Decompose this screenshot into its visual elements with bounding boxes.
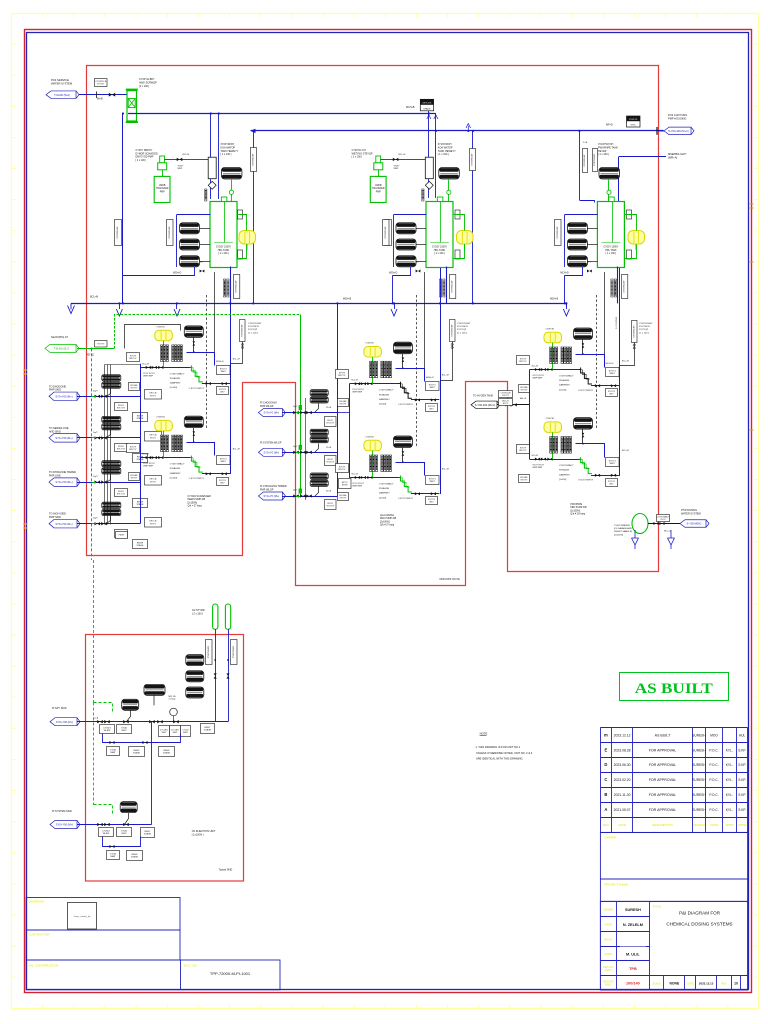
svg-text:S-Y00-100 (M+C): S-Y00-100 (M+C)	[475, 403, 496, 407]
supply valves row 1	[95, 395, 101, 398]
svg-text:DRAWN: DRAWN	[603, 907, 613, 911]
logo box	[68, 903, 97, 930]
svg-text:PI CHOGGINGPMP WLGP: PI CHOGGINGPMP WLGP	[260, 402, 277, 408]
pulsation capsule 3A	[544, 332, 562, 343]
svg-text:CHEMICAL DOSING SYSTEMS: CHEMICAL DOSING SYSTEMS	[666, 922, 732, 927]
svg-text:MCH+D: MCH+D	[426, 377, 434, 379]
pulsation capsule C	[628, 231, 645, 245]
skid-2 suction manifold	[337, 303, 339, 496]
sample cooler green pump	[632, 514, 648, 534]
right border revision marks	[750, 204, 754, 430]
pump discharge line B	[381, 159, 426, 161]
svg-text:CY03Y1B: CY03Y1B	[365, 437, 374, 439]
svg-text:SCALE: SCALE	[653, 983, 661, 986]
svg-text:BCL+M: BCL+M	[90, 296, 98, 299]
skid feed risers	[230, 267, 232, 475]
svg-text:REG NODWG: REG NODWG	[603, 965, 613, 972]
svg-text:m: m	[604, 732, 608, 737]
svg-text:SY0+Y0 (M+): SY0+Y0 (M+)	[264, 411, 280, 415]
drum tag column B	[383, 220, 390, 246]
svg-text:CY03Y1WACYPLEASDNDAMPENY[1x100: CY03Y1WACYPLEASDNDAMPENY[1x100]	[170, 372, 185, 389]
tank outlet riser C	[617, 267, 619, 304]
svg-text:AS BUILT: AS BUILT	[655, 733, 672, 737]
svg-text:REV'D: REV'D	[604, 937, 612, 941]
svg-text:FOR APPROVAL: FOR APPROVAL	[649, 748, 677, 752]
svg-text:MSEPBIA SLPY(WR+A): MSEPBIA SLPY(WR+A)	[668, 152, 687, 160]
svg-text:MPL ML27 barg: MPL ML27 barg	[169, 696, 177, 701]
tank drain C	[565, 267, 583, 276]
inlet pipe to strainer	[79, 94, 127, 96]
svg-text:CY03Y1LBY: CY03Y1LBY	[236, 280, 238, 293]
feed risers C	[579, 131, 581, 200]
discharge drum 1A	[184, 326, 203, 338]
tank green side line B	[453, 215, 465, 231]
skid-2 PSV column	[450, 320, 456, 342]
metering pump row 1	[102, 375, 121, 381]
svg-text:DEY+EX: DEY+EX	[423, 103, 432, 105]
svg-text:BYGSESYOYT: BYGSESYOYT	[339, 495, 347, 500]
chemical tank T-B	[426, 202, 453, 268]
O2 drums stack	[186, 655, 204, 666]
tank heater E-A	[221, 168, 242, 180]
svg-text:CY03Y1WACYPLEASDNDAMPENY[1x100: CY03Y1WACYPLEASDNDAMPENY[1x100]	[559, 375, 574, 392]
svg-text:PbWY: PbWY	[119, 535, 125, 537]
skid-2 bottom right box	[339, 479, 352, 489]
svg-text:CY03Y1LBY: CY03Y1LBY	[557, 226, 559, 239]
calibration column 2A	[401, 382, 412, 399]
dosing line 1B	[140, 457, 192, 459]
skid-2 green valve 1	[296, 412, 300, 414]
svg-text:2a+B: 2a+B	[94, 718, 99, 720]
svg-text:PROJECT NAME: PROJECT NAME	[604, 883, 627, 887]
discharge tag boxes 1A	[217, 366, 231, 375]
svg-text:C: C	[604, 777, 607, 782]
svg-text:KAL CONSTRUCTOR: KAL CONSTRUCTOR	[29, 964, 60, 968]
svg-text:SY03YWMP: SY03YWMP	[178, 166, 185, 170]
svg-text:CY03Y1B: CY03Y1B	[156, 326, 165, 328]
inline column B	[425, 157, 433, 179]
metering pump row 3	[102, 461, 121, 467]
O2 line1 tag boxes	[100, 725, 115, 734]
svg-text:BIGSESTAGE: BIGSESTAGE	[137, 542, 145, 547]
svg-text:PO4 CHOYONGPMP HOUSING: PO4 CHOYONGPMP HOUSING	[668, 113, 687, 121]
tank connection line 3A	[604, 272, 606, 354]
svg-text:SYOYT: SYOYT	[97, 343, 105, 345]
discharge tag boxes 3A	[606, 368, 620, 377]
svg-text:SYOY SYOYIWMP WMP: SYOY SYOYIWMP WMP	[143, 463, 155, 467]
svg-text:FOR APPROVAL: FOR APPROVAL	[649, 778, 677, 782]
stair exit line 3A	[591, 385, 619, 387]
svg-text:Dy/Y: Dy/Y	[93, 476, 98, 478]
green inline strainer F-01	[127, 91, 137, 121]
AS BUILT stamp	[620, 673, 729, 701]
svg-text:S-Y00-M00C: S-Y00-M00C	[687, 522, 702, 526]
green drop to skid-2	[300, 315, 302, 497]
interface tag box	[116, 532, 128, 539]
calibration column 3A	[581, 368, 592, 385]
svg-text:CY03Y1LBY: CY03Y1LBY	[253, 153, 255, 166]
local contractor box	[26, 960, 280, 990]
main water header 1	[128, 113, 436, 115]
pulsation capsule 2B	[364, 440, 382, 451]
green supply line	[77, 348, 114, 350]
stair exit line 2A	[411, 399, 439, 401]
transfer pump P-B	[376, 156, 381, 163]
svg-text:P.O.C.: P.O.C.	[709, 793, 718, 797]
svg-text:100/140: 100/140	[626, 982, 640, 986]
svg-text:CY03Y1LBY: CY03Y1LBY	[452, 280, 454, 293]
svg-text:MI+B: MI+B	[97, 98, 103, 101]
stair exit line 3B	[591, 475, 619, 477]
svg-text:BbL+R: BbL+R	[520, 398, 527, 400]
svg-text:SURESH: SURESH	[692, 748, 706, 752]
svg-text:AS BUILT: AS BUILT	[635, 681, 713, 697]
tank drain A	[123, 267, 195, 276]
svg-text:Dy/Y: Dy/Y	[293, 446, 298, 448]
united-by box	[26, 898, 180, 931]
O2 line2 tag boxes	[99, 828, 114, 837]
metering pump row 4	[102, 502, 121, 508]
svg-text:TITLE:: TITLE:	[653, 905, 662, 909]
pulsation capsule 2A	[364, 347, 382, 358]
O2 cylinders	[213, 604, 218, 629]
svg-text:O2 INJECTION UNIT[ 1x100% ]: O2 INJECTION UNIT[ 1x100% ]	[192, 830, 216, 836]
svg-text:MCH+B: MCH+B	[406, 106, 415, 109]
svg-text:3Y03YWOHKOA WATOPTANK HEWEYY[: 3Y03YWOHKOA WATOPTANK HEWEYY[ 1 x 100 ]	[438, 143, 456, 156]
svg-text:TO HIGH SIDEPMP SKID: TO HIGH SIDEPMP SKID	[49, 513, 66, 519]
agitator dashed shafts	[206, 295, 208, 428]
calibration column 3B	[581, 457, 592, 474]
left tag boxes 3B	[517, 445, 530, 454]
O2 line1 pump	[122, 699, 139, 710]
svg-text:2021.05.07: 2021.05.07	[614, 808, 631, 812]
svg-text:BCL+M: BCL+M	[399, 154, 406, 156]
svg-text:CONTRACTOR: CONTRACTOR	[29, 933, 51, 937]
row tag boxes 4	[115, 530, 128, 538]
svg-text:BCL+M: BCL+M	[622, 361, 629, 363]
skid-1 vent line	[125, 325, 181, 349]
left tag boxes 3A	[517, 356, 530, 365]
svg-text:2D+B: 2D+B	[326, 491, 332, 493]
svg-text:S.KP.: S.KP.	[738, 793, 746, 797]
row tag boxes 1	[115, 403, 128, 411]
dosing line 3A	[530, 369, 582, 371]
calibration column 2B	[401, 476, 412, 493]
pulsation capsule 1A	[155, 330, 173, 341]
svg-text:OWNER :: OWNER :	[604, 836, 617, 840]
svg-text:MOO: MOO	[710, 733, 718, 737]
dosing upper header 1A	[187, 353, 215, 366]
svg-text:BCL+M: BCL+M	[442, 375, 449, 377]
instrument tag columns 3A	[550, 347, 552, 364]
svg-text:SYOYIBPYOY: SYOYIBPYOY	[129, 355, 137, 360]
svg-text:SY0+Y00 (M+): SY0+Y00 (M+)	[55, 480, 72, 484]
revision table	[600, 727, 747, 729]
svg-text:SYOY SYOYIWMP WMP: SYOY SYOYIWMP WMP	[352, 483, 364, 487]
svg-text:CY03Y1LBY: CY03Y1LBY	[169, 226, 171, 239]
dosing upper header 1B	[187, 443, 215, 456]
svg-text:SCL+M: SCL+M	[532, 366, 539, 368]
svg-text:CY03Y1LB0YSYOYNOXSYOYQP[ 1 x 1: CY03Y1LB0YSYOYNOXSYOYQP[ 1 x 100 ]	[639, 323, 653, 334]
svg-text:SURESH: SURESH	[692, 793, 706, 797]
svg-text:SURESH: SURESH	[692, 733, 706, 737]
svg-text:O SCYOYWPOY: O SCYOYWPOY	[189, 388, 205, 390]
dosing drums A	[180, 223, 200, 234]
svg-text:PI CHOGGING TRWEDPMP WLGP: PI CHOGGING TRWEDPMP WLGP	[260, 485, 287, 491]
O2 tag columns	[206, 640, 213, 665]
left tag boxes 1B	[127, 444, 140, 453]
svg-text:FOR APPROVAL: FOR APPROVAL	[649, 793, 677, 797]
O2 line2 pump	[120, 802, 137, 813]
svg-text:CY03Y1LB0YAWG SCRWQP[1 x 100]: CY03Y1LB0YAWG SCRWQP[1 x 100]	[139, 78, 157, 88]
svg-text:SY03YWMP: SY03YWMP	[394, 166, 401, 170]
svg-text:NaOCl(5%) AT: NaOCl(5%) AT	[51, 335, 68, 339]
svg-text:SYOY SYOYIWMP WMP: SYOY SYOYIWMP WMP	[533, 465, 545, 469]
svg-text:Typical SKID: Typical SKID	[219, 869, 233, 872]
svg-text:CY03Y1LB0YSYOYNOXSYOYQP[ 1 x 1: CY03Y1LB0YSYOYNOXSYOYQP[ 1 x 100 ]	[248, 323, 262, 334]
header end arrow	[68, 303, 75, 313]
svg-text:UNITED BY: UNITED BY	[29, 900, 45, 904]
calibration column 1B	[191, 456, 202, 473]
svg-text:SY0+Y0 (M+): SY0+Y0 (M+)	[264, 494, 280, 498]
drum tag column C	[555, 220, 562, 246]
svg-text:SYOYIBPYOY: SYOYIBPYOY	[129, 446, 137, 451]
svg-text:DRAWN: DRAWN	[693, 823, 704, 827]
svg-text:CY03Y SMPOYDYMOR SCHWODDDBYOYO: CY03Y SMPOYDYMOR SCHWODDDBYOYOD PMP[ 2 x…	[136, 149, 158, 162]
svg-text:SCL+M: SCL+M	[532, 455, 539, 457]
svg-text:DATE: DATE	[618, 823, 626, 827]
green riser to header	[115, 315, 301, 349]
below tank instrument box C	[622, 275, 628, 299]
skid-2 green valve 2	[296, 452, 300, 454]
feed risers A	[210, 114, 212, 200]
svg-text:FOR APPROVAL: FOR APPROVAL	[649, 808, 677, 812]
svg-text:DOC. NO: DOC. NO	[184, 964, 198, 968]
chemical tank T-A	[210, 202, 237, 268]
tank drain B	[393, 267, 411, 276]
left tag boxes 2A	[336, 370, 349, 379]
svg-text:SYOY SYOYIWMP WMP: SYOY SYOYIWMP WMP	[143, 373, 155, 377]
svg-text:MP+D: MP+D	[606, 123, 613, 126]
instrument tag columns 3B	[550, 437, 552, 454]
tank outlet riser B	[446, 267, 448, 304]
svg-text:2023.02.20: 2023.02.20	[614, 778, 631, 782]
svg-text:CY03Y1LBY: CY03Y1LBY	[233, 645, 235, 658]
svg-text:KEY+BBYOY: KEY+BBYOY	[150, 435, 157, 440]
discharge tag boxes 2A	[426, 382, 440, 391]
svg-text:SCL+M: SCL+M	[351, 380, 358, 382]
below tank instrument box B	[450, 275, 456, 299]
svg-text:CY03Y1WACYPLEASDNDAMPENY[1x100: CY03Y1WACYPLEASDNDAMPENY[1x100]	[379, 389, 394, 406]
svg-text:KEY+BBYOY: KEY+BBYOY	[150, 521, 157, 526]
svg-text:SYOY SYOYIWMP WMP: SYOY SYOYIWMP WMP	[352, 389, 364, 393]
svg-text:Dy/Y: Dy/Y	[93, 390, 98, 392]
svg-text:AGA AANPALPED PUMP A/B[2x100%]: AGA AANPALPED PUMP A/B[2x100%]Q/h # 27 b…	[380, 514, 397, 527]
tank connection line 1A	[214, 272, 216, 352]
svg-text:BYGSESYOYT: BYGSESYOYT	[130, 475, 138, 480]
stair exit line 2B	[411, 493, 439, 495]
svg-text:2023.06.30: 2023.06.30	[614, 763, 631, 767]
svg-text:A: A	[604, 807, 607, 812]
tank heater E-B	[439, 168, 460, 180]
discharge tag boxes 3B	[606, 458, 620, 467]
svg-text:2023.12.12: 2023.12.12	[699, 982, 714, 986]
svg-text:B: B	[604, 792, 607, 797]
calibration column 1A	[191, 365, 202, 382]
svg-text:BYGSESYOYT: BYGSESYOYT	[130, 385, 138, 390]
skid-2 pump row 1	[310, 390, 328, 396]
discharge drum 3B	[574, 418, 593, 430]
svg-text:P.O.C.: P.O.C.	[709, 763, 718, 767]
title bottom strip	[650, 975, 748, 977]
svg-text:CY03Y1LBY: CY03Y1LBY	[624, 280, 626, 293]
svg-text:CY03Y1LBY: CY03Y1LBY	[594, 153, 596, 166]
drum tag column A	[167, 220, 174, 246]
svg-text:BNGSSTAGE: BNGSSTAGE	[163, 750, 171, 755]
svg-text:2D+B: 2D+B	[326, 447, 332, 449]
left feed drop line	[122, 114, 124, 304]
title block grid	[600, 901, 747, 990]
svg-text:PWOPNPEPED PUMP A/B[2x100%]Q/h: PWOPNPEPED PUMP A/B[2x100%]Q/h # 2/5 bar…	[570, 504, 587, 516]
svg-text:S.KP.: S.KP.	[738, 808, 746, 812]
stair exit line 1A	[202, 383, 230, 385]
green stub row 1	[92, 396, 96, 398]
svg-text:CY03Y1WATER(O2 SAVAGE ANDSWGET: CY03Y1WATER(O2 SAVAGE ANDSWGET SAMPLE)[1…	[614, 524, 632, 536]
svg-text:MCH+B: MCH+B	[343, 299, 352, 301]
svg-text:BNGSSTAGE: BNGSSTAGE	[131, 854, 139, 859]
svg-text:Gogo_somby_bg: Gogo_somby_bg	[74, 916, 91, 918]
drum pipe frame A	[177, 214, 211, 216]
svg-text:Dy/Y: Dy/Y	[93, 518, 98, 520]
svg-text:SYOYIBPYOY: SYOYIBPYOY	[338, 466, 346, 471]
tank green side line A	[237, 215, 247, 231]
svg-text:PO4 SERVICEWATER SYSTEM: PO4 SERVICEWATER SYSTEM	[51, 78, 73, 86]
svg-text:3Y03YWYOHPWOPNPE TANKHEYEP[ 1: 3Y03YWYOHPWOPNPE TANKHEYEP[ 1 x 100 ]	[598, 143, 618, 156]
svg-text:PI SYSTEM WLGP: PI SYSTEM WLGP	[260, 441, 282, 444]
supply valves row 3	[95, 480, 101, 483]
svg-text:TPP-72000-M-PI-1001: TPP-72000-M-PI-1001	[210, 971, 251, 976]
left tag boxes 1A	[127, 353, 140, 362]
svg-text:S.KP.: S.KP.	[738, 778, 746, 782]
svg-text:P.O.C.: P.O.C.	[709, 748, 718, 752]
svg-text:SY0+Y00 (M+): SY0+Y00 (M+)	[55, 522, 72, 526]
O2 dosing line 2	[77, 824, 152, 826]
svg-text:SCL+M: SCL+M	[142, 454, 149, 456]
green stubs O2 skid	[94, 703, 113, 713]
svg-text:HUL: HUL	[739, 733, 746, 737]
instrument tag columns 1B	[161, 435, 163, 452]
O2 line2 loop	[103, 837, 141, 847]
svg-text:KE'+Q: KE'+Q	[87, 355, 94, 357]
skid-2 green valve 3	[296, 496, 300, 498]
svg-text:SY0+Y0 (M+): SY0+Y0 (M+)	[264, 450, 280, 454]
svg-text:SURESH: SURESH	[692, 808, 706, 812]
svg-text:M. ULIL: M. ULIL	[626, 952, 640, 956]
discharge drum 3A	[574, 328, 593, 340]
skid-1 PSV column	[240, 320, 246, 342]
svg-text:FOR APPROVAL: FOR APPROVAL	[649, 763, 677, 767]
O2 aspirator drums	[144, 684, 165, 695]
svg-text:BNGSSTAGE: BNGSSTAGE	[133, 750, 141, 755]
svg-text:PI SPY SKID: PI SPY SKID	[52, 707, 67, 710]
tank green side line C	[625, 215, 637, 231]
svg-text:2023.12.12: 2023.12.12	[614, 733, 631, 737]
svg-text:SYOYIBPYOY: SYOYIBPYOY	[519, 447, 527, 452]
instrument tag columns 2A	[370, 361, 372, 378]
red boundary box of O2 injection skid	[86, 635, 244, 882]
header end tag box	[627, 116, 641, 127]
tank heater E-C	[599, 168, 620, 180]
svg-text:SYOY SYOYIWMP WMP: SYOY SYOYIWMP WMP	[533, 375, 545, 379]
svg-text:REV: REV	[721, 983, 726, 986]
contractor box	[26, 930, 180, 960]
svg-text:TO DHOGONEPMP SKID: TO DHOGONEPMP SKID	[49, 385, 66, 391]
left tag boxes 2B	[336, 464, 349, 473]
green stub row 3	[92, 482, 96, 484]
dosing upper header 2A	[396, 369, 425, 382]
svg-text:MCH+D: MCH+D	[389, 273, 398, 275]
discharge drum 2A	[393, 342, 412, 354]
discharge drum 1B	[184, 416, 203, 428]
owner box	[600, 832, 747, 879]
dosing upper header 2B	[396, 463, 425, 476]
svg-text:CY03Y1LBY: CY03Y1LBY	[385, 226, 387, 239]
O2 dosing line 1	[77, 721, 228, 723]
svg-text:SYOYIBPYOY: SYOYIBPYOY	[338, 372, 346, 377]
svg-text:CY03Y1LBY: CY03Y1LBY	[633, 325, 635, 338]
svg-text:SURESH: SURESH	[692, 763, 706, 767]
svg-text:CY03Y1LBY: CY03Y1LBY	[451, 324, 453, 337]
discharge tag boxes 1B	[217, 456, 231, 465]
green drop line to O2 skid	[91, 348, 93, 560]
svg-text:BCL+M: BCL+M	[622, 450, 629, 452]
svg-text:CYOGN SCAVENGERPEED PUMP A/B[2: CYOGN SCAVENGERPEED PUMP A/B[2x100%]Q/h …	[188, 495, 212, 508]
svg-text:REV: REV	[603, 823, 609, 827]
dosing line 2B	[349, 477, 401, 479]
dosing drums C	[567, 223, 587, 234]
dosing line 2A	[349, 383, 401, 385]
svg-text:SY0+Y00 (M+): SY0+Y00 (M+)	[55, 436, 72, 440]
svg-text:P&I DIAGRAM FOR: P&I DIAGRAM FOR	[679, 911, 721, 916]
O2 line1 gauge	[170, 708, 178, 716]
svg-text:BCL+M: BCL+M	[233, 358, 240, 360]
svg-text:SYB+: SYB+	[631, 125, 637, 127]
svg-text:BPYOBYGE: BPYOBYGE	[342, 482, 348, 487]
svg-text:TO DHOGONE TRWEDPMP LINE: TO DHOGONE TRWEDPMP LINE	[49, 471, 76, 477]
svg-text:SPACE: SPACE	[423, 107, 431, 110]
svg-text:CY03Y1B: CY03Y1B	[156, 417, 165, 419]
svg-text:CHK'D: CHK'D	[604, 923, 612, 927]
below tank instrument box A	[234, 275, 240, 299]
diamond fitting A	[208, 181, 216, 189]
drum pipe frame B	[394, 214, 427, 216]
svg-text:T-6LI00 (5L7): T-6LI00 (5L7)	[54, 347, 70, 351]
svg-text:MCH+B: MCH+B	[550, 299, 559, 301]
svg-text:CY03Y1LBY: CY03Y1LBY	[117, 226, 119, 239]
svg-text:APP'D: APP'D	[605, 952, 613, 956]
svg-text:O SCYOYWPOY: O SCYOYWPOY	[189, 478, 205, 480]
svg-text:KY.L.: KY.L.	[726, 793, 733, 797]
svg-text:BCL+M: BCL+M	[442, 469, 449, 471]
svg-text:MCH+D: MCH+D	[173, 273, 182, 275]
svg-text:S.KP.: S.KP.	[738, 763, 746, 767]
svg-text:PI SYSTEM SKID: PI SYSTEM SKID	[52, 810, 72, 813]
tank outlet riser A	[230, 267, 232, 304]
red package boundary polygon	[87, 66, 659, 586]
instrument tag columns 1A	[161, 345, 163, 362]
svg-text:BbL+RSYOY: BbL+RSYOY	[502, 400, 509, 405]
svg-text:P.O.C.: P.O.C.	[709, 778, 718, 782]
